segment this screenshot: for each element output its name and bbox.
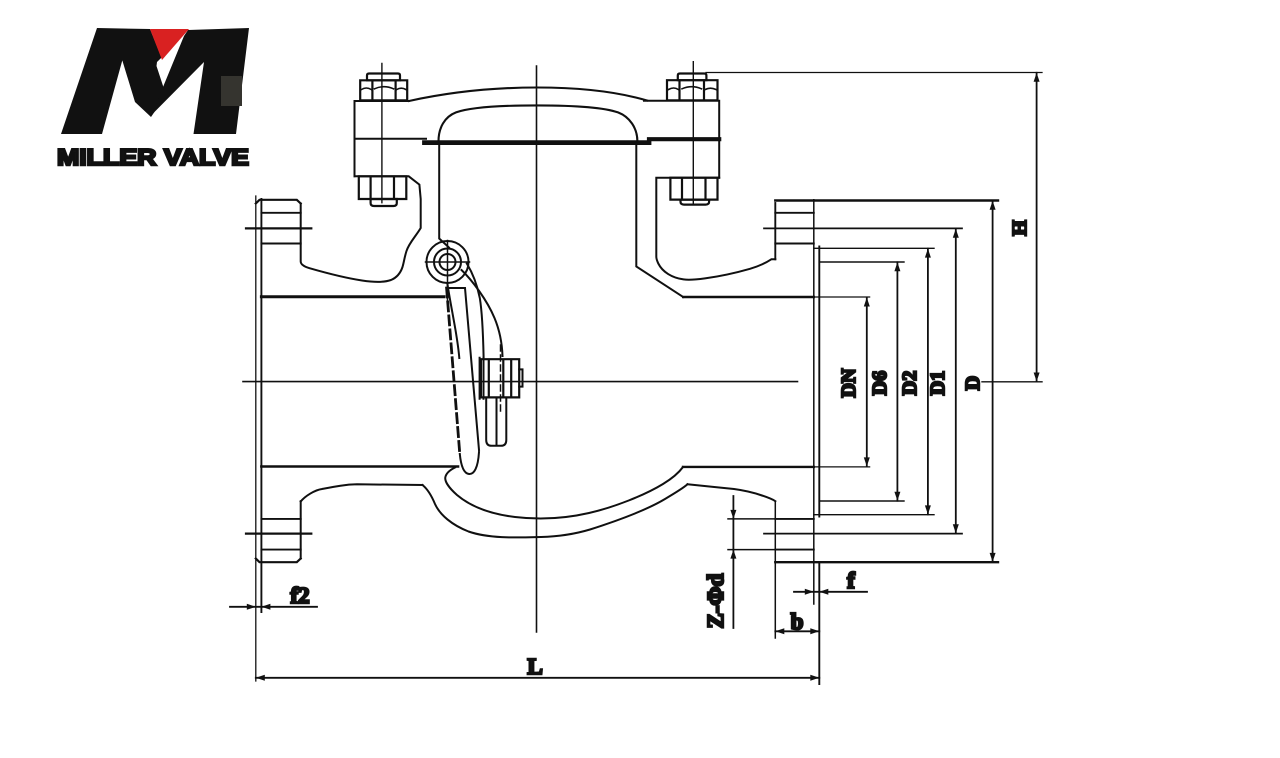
svg-text:f: f bbox=[847, 568, 855, 593]
svg-text:H: H bbox=[1009, 220, 1031, 236]
hinge pin inner circle bbox=[440, 254, 456, 270]
horizontal centerline bbox=[243, 381, 798, 383]
dimension Z-phi-d bbox=[732, 496, 734, 628]
dimension f bbox=[794, 591, 867, 593]
svg-text:D6: D6 bbox=[869, 371, 891, 395]
left inner dome line bbox=[439, 142, 449, 248]
dimension D1 bbox=[955, 229, 957, 534]
hinge pin middle circle bbox=[434, 249, 461, 276]
bore bottom left bbox=[261, 465, 458, 468]
bolt hole extension lines for Z-phi-d bbox=[728, 519, 775, 550]
right flange bolt holes bbox=[775, 213, 814, 550]
sump inner arc bbox=[445, 467, 683, 519]
vertical centerline bbox=[536, 66, 538, 632]
logo red triangle bbox=[150, 29, 189, 60]
svg-text:DN: DN bbox=[838, 368, 860, 397]
right flange top edge with D extension bbox=[775, 199, 998, 201]
raised face and D2 D6 extension lines bbox=[814, 248, 934, 514]
left flange bolt hole top bbox=[261, 213, 300, 244]
H extension line top bbox=[706, 72, 1042, 74]
swing arm bbox=[447, 283, 459, 358]
sump outer arc bbox=[423, 484, 688, 537]
bonnet joint thick line bbox=[425, 140, 650, 145]
dimension D bbox=[992, 201, 994, 562]
dimension D2 bbox=[927, 249, 929, 515]
svg-text:D: D bbox=[962, 376, 984, 390]
left lower body outline bbox=[301, 484, 423, 501]
disc nut tail bbox=[486, 399, 506, 446]
dimension b bbox=[775, 630, 819, 632]
bonnet dome inner arc bbox=[439, 105, 638, 141]
right raised face line bbox=[818, 247, 820, 685]
dimension D6 bbox=[896, 262, 898, 500]
bonnet flange plate bbox=[355, 101, 720, 178]
hinge pin crosshair bbox=[426, 241, 470, 303]
bore bottom right bbox=[683, 466, 814, 468]
disc bbox=[447, 288, 479, 450]
disc nut bbox=[481, 359, 519, 397]
right flange bottom edge with D extension bbox=[775, 561, 998, 563]
left flange bottom edge bbox=[256, 559, 301, 563]
hinge boss outer circle bbox=[427, 241, 469, 283]
left flange hub bottom back bbox=[300, 501, 302, 558]
logo M right strokes bbox=[152, 28, 250, 134]
logo M left strokes bbox=[61, 28, 166, 134]
svg-text:MILLER VALVE: MILLER VALVE bbox=[57, 144, 249, 170]
right lug and neck outline bbox=[656, 178, 775, 280]
dimension DN bbox=[866, 298, 868, 467]
bonnet dome outer arc bbox=[409, 88, 647, 102]
right lower neck outline bbox=[688, 484, 776, 501]
right top nut bbox=[678, 74, 707, 81]
left bolt hole centerline top bbox=[246, 227, 311, 229]
left flange raised face line bbox=[260, 199, 262, 612]
right flange face line bbox=[813, 200, 815, 604]
dimension f2 bbox=[230, 606, 317, 608]
left flange top edge bbox=[256, 200, 301, 204]
left lug and neck outline bbox=[301, 176, 421, 281]
dimension L bbox=[256, 677, 820, 679]
left top nut bbox=[367, 74, 400, 81]
svg-text:f2: f2 bbox=[290, 583, 309, 608]
left flange face line bbox=[255, 196, 257, 681]
svg-text:Z-Φd: Z-Φd bbox=[703, 573, 728, 628]
bore top right bbox=[683, 296, 814, 298]
centerline extension right bbox=[982, 381, 1042, 383]
right bolt hole centerlines bbox=[764, 228, 962, 533]
logo gray patch bbox=[221, 76, 242, 106]
right flange back edge bbox=[774, 203, 776, 259]
left flange bolt hole bottom bbox=[261, 519, 300, 550]
svg-text:b: b bbox=[791, 609, 804, 634]
svg-text:D1: D1 bbox=[927, 371, 949, 395]
dimension H bbox=[1036, 73, 1038, 382]
left bonnet stud bbox=[381, 63, 383, 202]
right bottom nut bbox=[670, 178, 717, 200]
left bolt hole centerline bottom bbox=[246, 532, 311, 534]
svg-text:D2: D2 bbox=[899, 371, 921, 395]
right inner dome line bbox=[636, 142, 683, 297]
bore top left bbox=[261, 295, 444, 298]
right bonnet stud bbox=[692, 62, 694, 203]
disc hidden edge bbox=[447, 288, 460, 454]
left bottom nut bbox=[359, 176, 407, 199]
svg-text:L: L bbox=[527, 654, 542, 679]
